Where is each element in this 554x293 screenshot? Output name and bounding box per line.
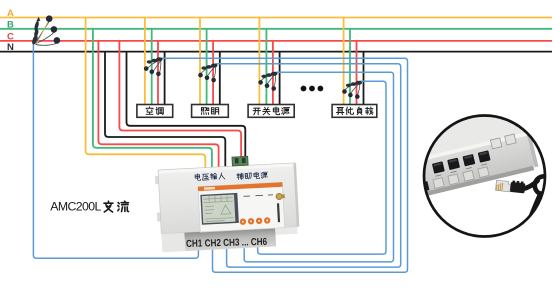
device front panel bbox=[198, 182, 285, 232]
svg-text:A: A bbox=[7, 8, 14, 19]
panel small printed labels bbox=[243, 195, 272, 197]
printed label voltage input bbox=[195, 172, 225, 180]
load box label air conditioner bbox=[146, 107, 163, 115]
svg-text:CH1 CH2 CH3 ... CH6: CH1 CH2 CH3 ... CH6 bbox=[186, 237, 268, 250]
printed label auxiliary power bbox=[237, 172, 268, 180]
device name label suffix AC bbox=[104, 201, 129, 212]
wire phase B voltage input bbox=[93, 29, 212, 172]
photo lower jack row bbox=[418, 181, 429, 192]
svg-text:C: C bbox=[7, 31, 14, 42]
device DIN tabs bbox=[155, 176, 159, 184]
branch 1 wires (air conditioner) bbox=[144, 18, 146, 106]
bus A bbox=[0, 17, 552, 19]
aux power terminal block bbox=[232, 156, 248, 166]
photo network cable bbox=[524, 181, 538, 189]
svg-text:N: N bbox=[7, 42, 14, 53]
bus B bbox=[0, 28, 552, 30]
branch 4 wires (other loads) bbox=[343, 18, 345, 106]
bus N bbox=[0, 51, 552, 53]
load box label switching supply bbox=[253, 107, 289, 115]
SIM slot bbox=[277, 203, 280, 222]
device bottom right block bbox=[275, 227, 297, 235]
load box label lighting bbox=[201, 108, 218, 115]
photo empty jack outlines upper bbox=[490, 134, 516, 149]
photo RJ45 plug bbox=[496, 179, 526, 194]
photo device top face bbox=[375, 101, 529, 171]
wire phase A voltage input bbox=[86, 18, 206, 173]
load box air conditioner bbox=[137, 105, 173, 118]
ellipsis dots between branch 3 and 4 bbox=[301, 86, 324, 92]
wire aux power L bbox=[119, 41, 241, 162]
load box other loads bbox=[332, 105, 377, 118]
CT cluster branch 3 bbox=[258, 72, 277, 91]
photo circle ring bbox=[424, 116, 545, 237]
photo RJ45 jacks row bbox=[432, 150, 491, 173]
panel orange strip with logo bbox=[198, 182, 283, 191]
wire CT main to CH1 bbox=[33, 44, 198, 258]
wire phase C voltage input bbox=[98, 41, 218, 172]
photo tiny port captions bbox=[435, 164, 487, 176]
branch 2 wires (lighting) bbox=[199, 18, 201, 106]
device bottom connector band bbox=[184, 228, 276, 251]
load box lighting bbox=[192, 105, 229, 118]
CT cluster branch 4 bbox=[342, 81, 362, 99]
photo device front face bbox=[383, 136, 534, 200]
branch 3 wires (switching supply) bbox=[258, 18, 260, 106]
device bottom left block bbox=[161, 233, 185, 253]
bus C bbox=[0, 40, 552, 42]
wire CT branch2 to CH3 bbox=[216, 64, 401, 267]
load box label other loads bbox=[337, 107, 374, 115]
panel buttons bbox=[240, 217, 271, 225]
svg-text:AMC200L: AMC200L bbox=[50, 200, 101, 214]
wire CT branch1 to CH2 bbox=[161, 58, 408, 272]
antenna connector bbox=[276, 193, 283, 200]
wire neutral voltage input bbox=[105, 52, 225, 172]
load box switching supply bbox=[248, 105, 294, 118]
wire CT branch4 to CH6 bbox=[258, 81, 386, 254]
device body bbox=[158, 163, 299, 234]
wire aux power N bbox=[127, 52, 246, 162]
svg-text:B: B bbox=[7, 19, 14, 30]
LCD display bbox=[200, 193, 239, 225]
wire CT branch3 to CH4 bbox=[244, 72, 393, 262]
CT cluster branch 2 bbox=[198, 64, 217, 83]
CT main cluster on buses bbox=[32, 15, 60, 45]
CT cluster branch 1 bbox=[144, 57, 163, 76]
